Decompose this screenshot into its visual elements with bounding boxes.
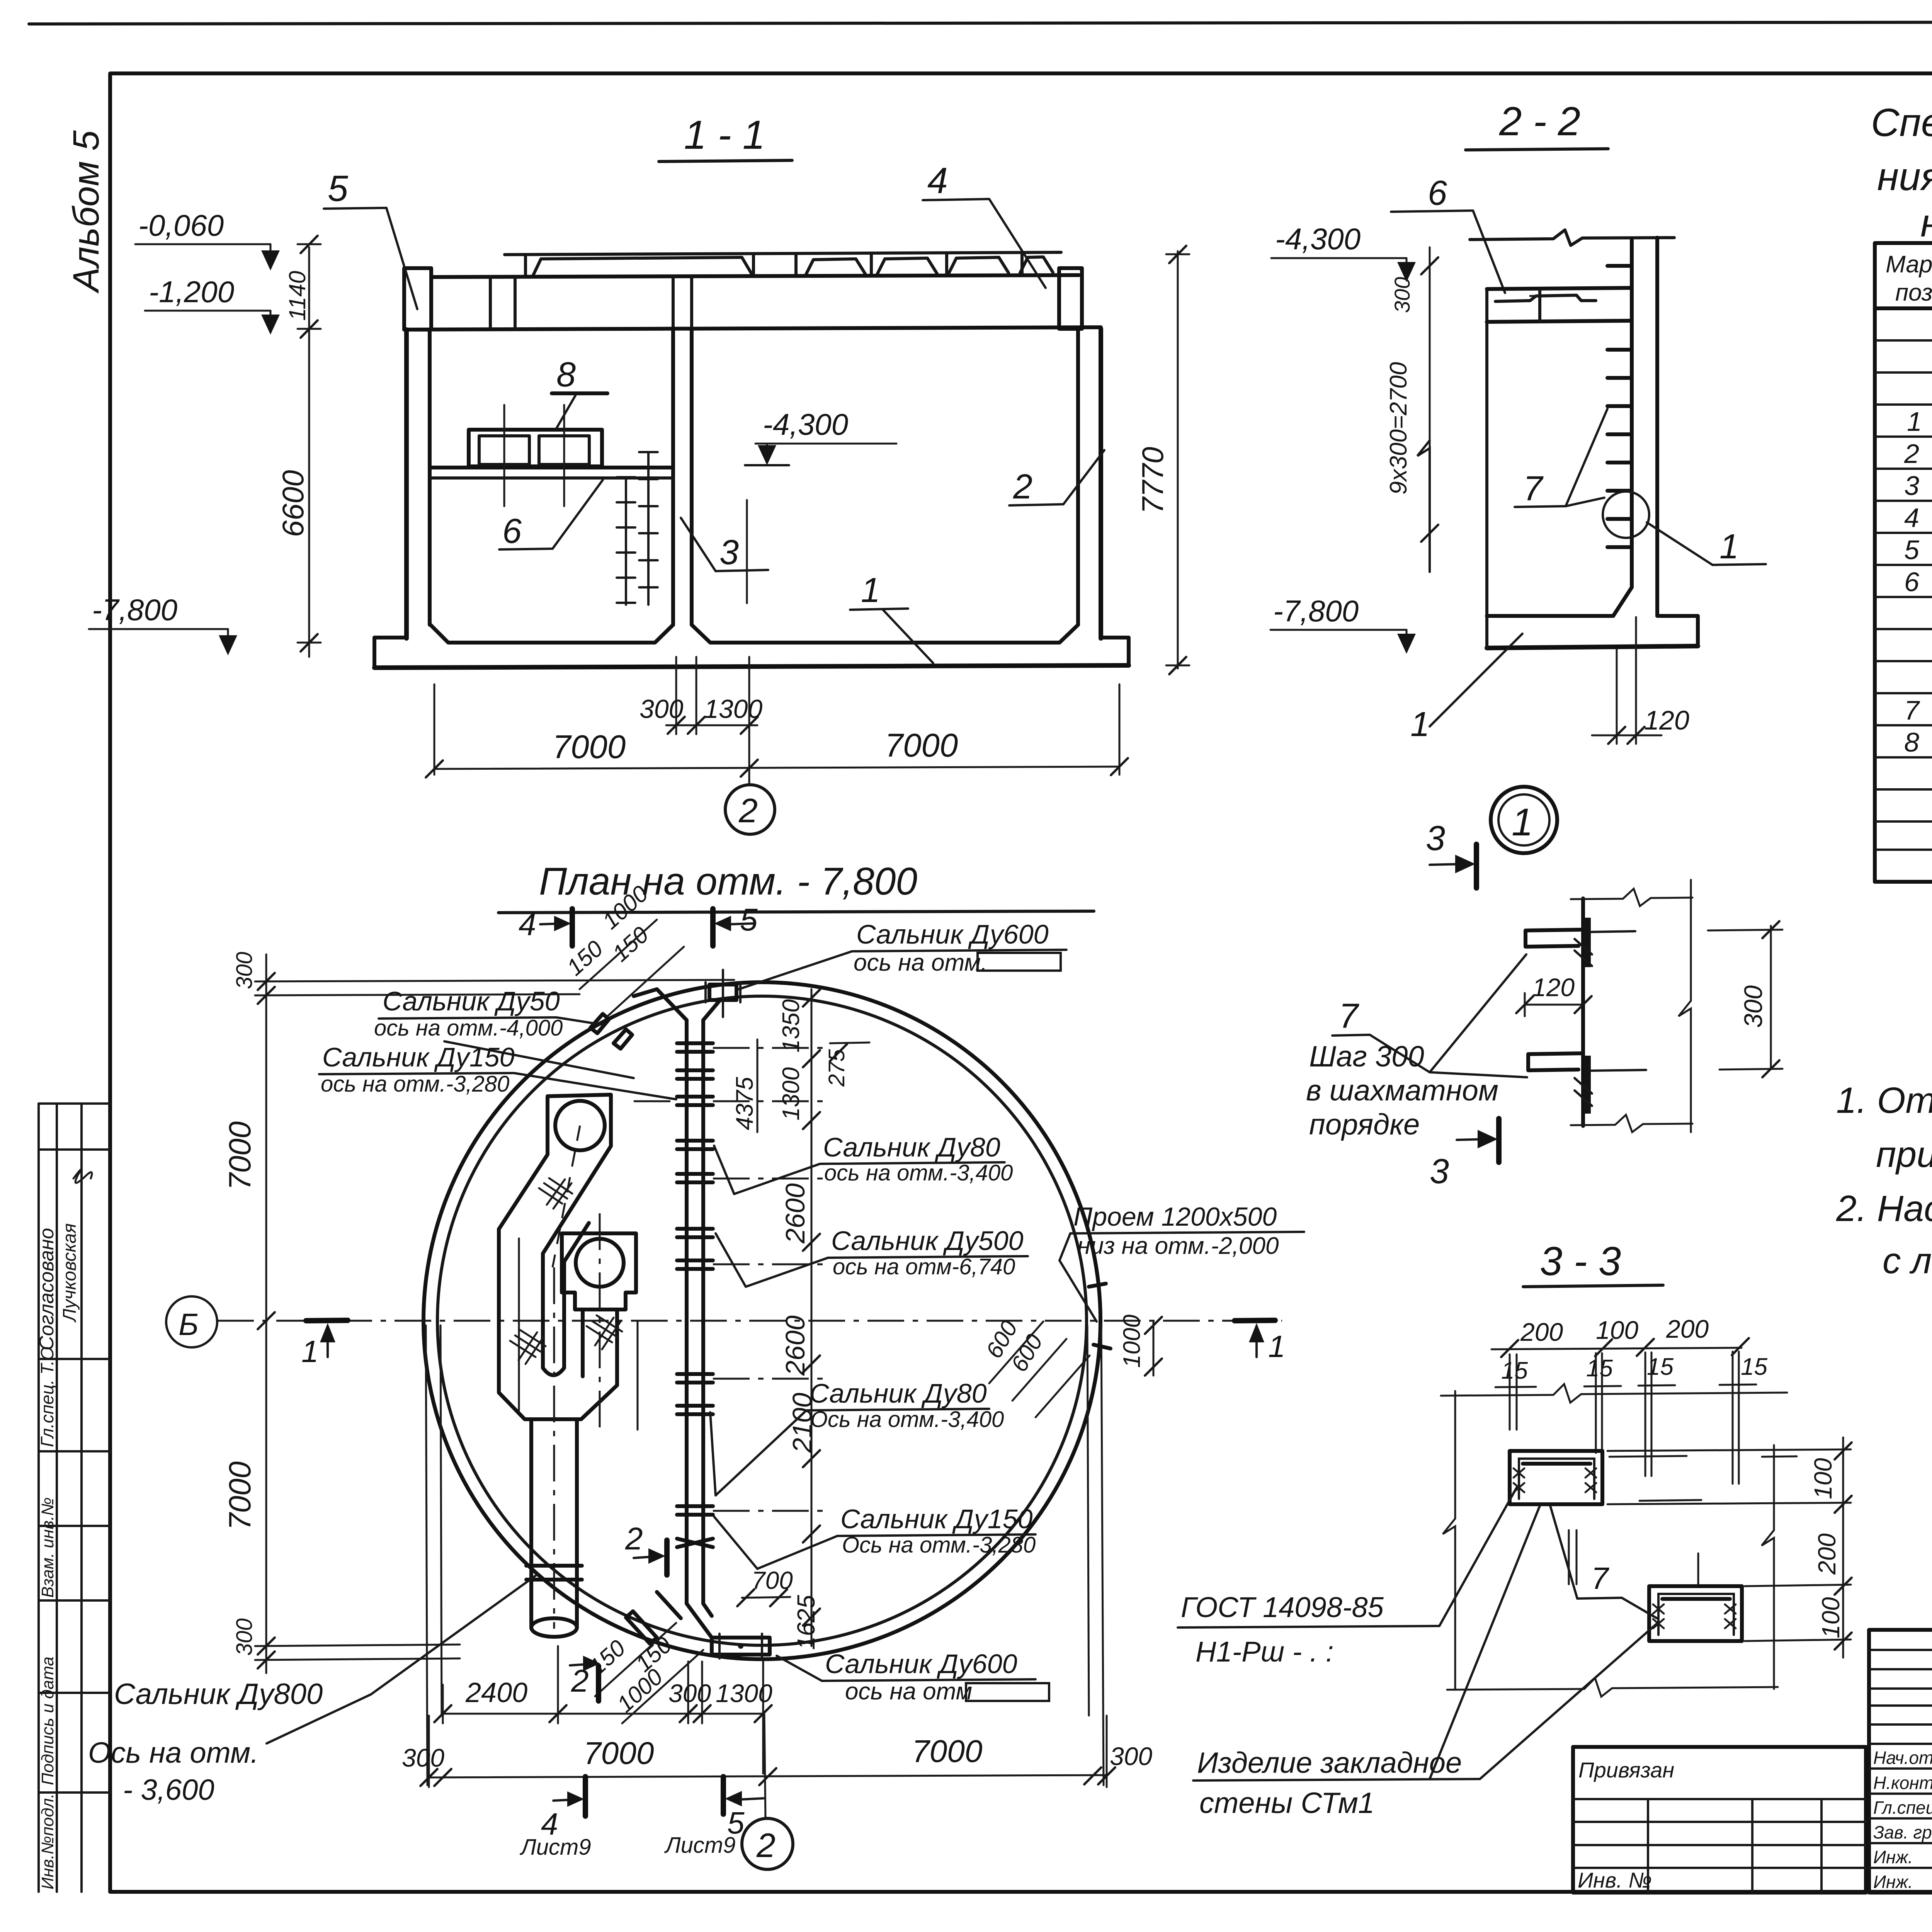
svg-text:ось на отм: ось на отм [845, 1678, 972, 1705]
svg-text:15: 15 [1501, 1357, 1528, 1384]
svg-text:2: 2 [1904, 439, 1919, 469]
glands on wall (bars) [677, 1043, 713, 1547]
pump centerline vertical [553, 1267, 555, 1629]
dividing wall [685, 1020, 689, 1604]
svg-text:100: 100 [1596, 1316, 1638, 1344]
svg-text:Шаг 300: Шаг 300 [1309, 1040, 1424, 1073]
svg-text:3: 3 [719, 533, 739, 572]
svg-text:2600: 2600 [780, 1315, 810, 1376]
wall bottom elbow [687, 1604, 712, 1638]
svg-text:4: 4 [927, 160, 948, 201]
svg-text:7000: 7000 [583, 1736, 654, 1771]
svg-text:7000: 7000 [553, 729, 626, 765]
svg-text:1140: 1140 [284, 271, 310, 321]
right inner wall line with break [1679, 880, 1691, 1132]
tank outer wall circle [423, 982, 1100, 1659]
svg-text:5: 5 [740, 902, 758, 937]
svg-text:Взам. инв.№: Взам. инв.№ [38, 1497, 57, 1598]
roof panel joints [533, 257, 752, 275]
roof slab band [431, 275, 1079, 277]
bottom main dim 7000 7000 [434, 684, 435, 775]
svg-text:ния монолитных конструкций: ния монолитных конструкций подзем- [1877, 155, 1932, 199]
privyazan table [1573, 1747, 1866, 1893]
top anchor bracket [1526, 930, 1578, 947]
svg-text:Сальник Ду500: Сальник Ду500 [831, 1226, 1024, 1256]
svg-text:План на отм. - 7,800: План на отм. - 7,800 [539, 860, 917, 903]
svg-text:Изделие закладное: Изделие закладное [1197, 1747, 1462, 1779]
wall top edge with break [1441, 1384, 1787, 1403]
svg-text:3: 3 [1430, 1152, 1449, 1191]
suction pipe Du800 [529, 1419, 533, 1628]
svg-text:5: 5 [328, 168, 349, 209]
right vertical dim 7770 [1177, 251, 1179, 668]
svg-text:120: 120 [1644, 705, 1689, 735]
svg-text:Проем 1200х500: Проем 1200х500 [1073, 1202, 1277, 1231]
plan left dim chain [265, 954, 267, 1673]
bottom small dims 300 1300 [675, 657, 677, 734]
pump lower circle [576, 1239, 624, 1287]
svg-text:ной части: ной части [1920, 201, 1932, 245]
detail circle 1 (double) [1491, 787, 1557, 853]
svg-text:100: 100 [1809, 1458, 1837, 1499]
svg-text:2: 2 [1013, 468, 1032, 506]
right wall of 2-2 [1630, 239, 1634, 587]
section mark 3 bottom [1457, 1139, 1487, 1140]
top break line [1470, 230, 1674, 245]
svg-text:Марка,: Марка, [1886, 251, 1932, 278]
svg-text:15: 15 [1741, 1354, 1767, 1380]
svg-text:5: 5 [1904, 535, 1920, 565]
svg-text:7: 7 [1523, 469, 1544, 508]
svg-text:7000: 7000 [912, 1734, 982, 1769]
svg-text:7: 7 [1904, 695, 1920, 725]
wall top fork [634, 989, 687, 1020]
svg-text:Спецификация к схеме распол: Спецификация к схеме расположе- [1871, 100, 1932, 145]
svg-text:6: 6 [1904, 567, 1919, 597]
left wall [404, 330, 409, 638]
svg-text:200: 200 [1813, 1533, 1841, 1575]
svg-text:Инж.: Инж. [1873, 1847, 1913, 1867]
svg-text:200: 200 [1666, 1315, 1709, 1343]
dim 300 1300 bottom [687, 1662, 689, 1723]
anchor plate 1 (upper) [1510, 1451, 1602, 1504]
svg-text:1. Отметка сальников Ду600: 1. Отметка сальников Ду600 проставляется [1836, 1080, 1932, 1121]
right dim chain inside plan [811, 989, 813, 1646]
svg-text:Сальник Ду80: Сальник Ду80 [810, 1378, 987, 1408]
pump outline left edge [499, 1229, 617, 1419]
svg-text:порядке: порядке [1309, 1108, 1420, 1141]
guide line [518, 1238, 520, 1410]
svg-text:2400: 2400 [465, 1677, 527, 1708]
middle wall [671, 329, 675, 625]
svg-text:Инж.: Инж. [1873, 1872, 1913, 1892]
svg-text:7: 7 [1591, 1561, 1609, 1595]
svg-text:7000: 7000 [223, 1121, 257, 1190]
svg-text:Б: Б [179, 1307, 199, 1342]
dim 300 detail [1770, 926, 1772, 1068]
svg-text:Ось на отм.-3,400: Ось на отм.-3,400 [810, 1407, 1004, 1432]
svg-text:Сальник Ду600: Сальник Ду600 [856, 919, 1049, 949]
svg-text:2: 2 [756, 1826, 776, 1864]
svg-text:300: 300 [1390, 277, 1414, 313]
svg-text:Инв. №: Инв. № [1578, 1868, 1652, 1892]
diagonal glands top (Du50/Du150) [590, 1014, 609, 1033]
left margin stamp table [39, 1104, 110, 1892]
svg-text:6600: 6600 [276, 470, 310, 537]
svg-text:ось на отм.-3,400: ось на отм.-3,400 [824, 1160, 1013, 1185]
svg-text:Привязан: Привязан [1578, 1758, 1674, 1782]
anchor plate 2 (lower) [1649, 1586, 1742, 1641]
svg-text:7770: 7770 [1136, 447, 1170, 514]
right wall [1076, 329, 1080, 625]
ladder rungs on wall [1607, 266, 1632, 547]
svg-text:4: 4 [519, 907, 536, 942]
svg-text:7000: 7000 [885, 727, 958, 764]
svg-text:1: 1 [1719, 527, 1739, 566]
svg-text:-1,200: -1,200 [149, 275, 234, 309]
svg-text:1: 1 [1512, 801, 1533, 844]
svg-text:3: 3 [1426, 819, 1445, 858]
inner pit edge line [746, 500, 748, 603]
svg-text:1: 1 [861, 571, 880, 610]
plan bottom dim line [428, 1716, 430, 1787]
svg-text:1: 1 [1907, 406, 1922, 437]
svg-text:- 3,600: - 3,600 [123, 1774, 214, 1806]
wall face line [1581, 898, 1585, 1126]
svg-text:Сальник Ду800: Сальник Ду800 [114, 1678, 323, 1711]
svg-text:3: 3 [1904, 471, 1919, 501]
svg-text:300: 300 [1739, 985, 1767, 1028]
2-2 left dim line [1429, 247, 1431, 572]
svg-text:Зав. гр.: Зав. гр. [1873, 1822, 1932, 1842]
svg-text:Ось на отм.: Ось на отм. [88, 1736, 259, 1769]
svg-text:2 - 2: 2 - 2 [1499, 99, 1580, 144]
pump unit 6: upper block [499, 1095, 611, 1375]
svg-text:ось на отм-6,740: ось на отм-6,740 [833, 1254, 1015, 1279]
svg-text:Лист9: Лист9 [664, 1833, 736, 1858]
svg-text:100: 100 [1817, 1597, 1845, 1638]
svg-text:Ось на отм.-3,280: Ось на отм.-3,280 [842, 1532, 1036, 1558]
bottom edge with break [1447, 1678, 1778, 1697]
svg-text:Альбом 5: Альбом 5 [66, 130, 107, 294]
svg-text:2600: 2600 [780, 1183, 810, 1244]
svg-text:Сальник Ду80: Сальник Ду80 [823, 1132, 1000, 1162]
left chamber edge [1485, 290, 1488, 616]
pump upper circle [555, 1101, 605, 1150]
bottom boundary line with break [1571, 1115, 1692, 1132]
svg-text:поз.: поз. [1895, 279, 1932, 306]
top boundary line with break [1571, 889, 1692, 906]
svg-text:ось на отм.: ось на отм. [854, 949, 987, 976]
axis line to circle 2 [748, 657, 750, 784]
svg-text:1300: 1300 [704, 694, 762, 724]
svg-text:1300: 1300 [716, 1679, 772, 1708]
axis circle 2 [725, 785, 775, 834]
left dim line with break [1443, 1391, 1455, 1689]
top gland Du600 [709, 985, 736, 1000]
center guide lines [1569, 1456, 1797, 1584]
svg-text:-0,060: -0,060 [138, 208, 224, 242]
sheet top edge line [29, 22, 1932, 24]
detail circle mark [1603, 492, 1649, 538]
svg-text:1000: 1000 [1119, 1315, 1145, 1368]
axis line to plan circle 2 [764, 1714, 765, 1818]
slab at -4,300 [1487, 288, 1632, 289]
svg-text:2. Настоящий чертеж рассматр: 2. Настоящий чертеж рассматривать совмес… [1836, 1188, 1932, 1229]
tank inner wall circle [437, 996, 1087, 1645]
gland axis dash-dot stubs [634, 1048, 823, 1511]
right dim line with break [1762, 1445, 1774, 1689]
svg-text:300: 300 [668, 1679, 711, 1708]
svg-text:Сальник Ду600: Сальник Ду600 [825, 1649, 1017, 1679]
pump neck left line [581, 1310, 585, 1376]
axis B horizontal [217, 1320, 1282, 1322]
svg-text:Инв.№подл.: Инв.№подл. [38, 1793, 57, 1889]
svg-text:ось на отм.-4,000: ось на отм.-4,000 [374, 1015, 563, 1041]
svg-text:15: 15 [1586, 1355, 1613, 1382]
svg-text:6: 6 [1428, 174, 1447, 213]
svg-text:Лист9: Лист9 [519, 1835, 591, 1860]
left vertical dim line [308, 247, 310, 657]
opening in wall right (proem) [1089, 1284, 1106, 1287]
svg-text:Гл.спец.: Гл.спец. [1873, 1798, 1932, 1818]
name rows [1869, 1769, 1932, 1868]
svg-text:4: 4 [1904, 503, 1919, 533]
roof band joints [489, 277, 492, 329]
diagonal glands bottom [626, 1611, 657, 1644]
svg-text:3 - 3: 3 - 3 [1540, 1239, 1621, 1284]
svg-text:-7,800: -7,800 [1273, 594, 1359, 628]
svg-text:Сальник Ду150: Сальник Ду150 [840, 1504, 1033, 1534]
intermediate slab in left chamber [430, 466, 673, 469]
svg-text:300: 300 [402, 1743, 444, 1772]
svg-text:300: 300 [232, 952, 257, 989]
svg-text:Нач.отд: Нач.отд [1873, 1748, 1932, 1768]
svg-text:8: 8 [1904, 727, 1919, 757]
svg-text:1300: 1300 [778, 1067, 804, 1121]
roof panel top line [505, 252, 1061, 255]
section arrow 1 left [306, 1320, 348, 1321]
bottom slab [430, 624, 673, 643]
svg-text:9x300=2700: 9x300=2700 [1385, 362, 1412, 495]
svg-text:Сальник Ду50: Сальник Ду50 [383, 986, 560, 1016]
svg-text:7000: 7000 [223, 1461, 257, 1530]
plan circle 2 [742, 1818, 793, 1869]
pipe gland at circle wall [526, 1564, 582, 1568]
dim 4375 / 275 [757, 1039, 759, 1132]
svg-text:6: 6 [502, 512, 522, 551]
dim 120 of 2-2 [1616, 649, 1618, 744]
svg-text:Н.контр.: Н.контр. [1873, 1773, 1932, 1793]
left margin signature [73, 1170, 92, 1183]
svg-text:1625: 1625 [792, 1595, 820, 1650]
svg-text:300: 300 [1110, 1742, 1152, 1770]
svg-text:1: 1 [1410, 705, 1430, 744]
pump lower block [562, 1233, 636, 1310]
svg-text:Н1-Рш - . :: Н1-Рш - . : [1196, 1636, 1333, 1668]
svg-text:низ на отм.-2,000: низ на отм.-2,000 [1077, 1233, 1279, 1259]
svg-text:в шахматном: в шахматном [1306, 1074, 1498, 1107]
svg-text:Согласовано: Согласовано [36, 1228, 58, 1350]
section arrow 1 right [1235, 1320, 1275, 1321]
svg-text:ГОСТ 14098-85: ГОСТ 14098-85 [1181, 1591, 1384, 1623]
svg-text:1350: 1350 [778, 999, 804, 1053]
bottom gland Du600 [712, 1638, 770, 1655]
svg-text:-7,800: -7,800 [92, 593, 177, 627]
svg-text:2: 2 [625, 1521, 643, 1556]
svg-text:стены СТм1: стены СТм1 [1199, 1787, 1374, 1820]
right parapet block [1059, 268, 1082, 329]
svg-text:Лучковская: Лучковская [60, 1223, 80, 1323]
svg-text:4375: 4375 [731, 1077, 758, 1130]
svg-text:2: 2 [738, 791, 758, 830]
rebar pairs [1510, 1352, 1739, 1484]
svg-text:200: 200 [1520, 1318, 1563, 1346]
axis B circle [166, 1296, 217, 1347]
title block outer [1869, 1630, 1932, 1893]
section marks 4/5 bottom + Лист9 [583, 1777, 588, 1816]
svg-text:Подпись и дата: Подпись и дата [38, 1656, 57, 1785]
left parapet block [404, 268, 431, 330]
svg-text:300: 300 [639, 694, 684, 724]
svg-text:-4,300: -4,300 [763, 407, 848, 441]
pump centerline diagonal [553, 1126, 580, 1267]
bottom anchor bracket [1528, 1054, 1578, 1070]
svg-text:1: 1 [1268, 1329, 1286, 1364]
svg-text:-4,300: -4,300 [1275, 222, 1361, 256]
svg-text:1: 1 [301, 1334, 319, 1369]
upper small rows left part [1869, 1630, 1932, 1893]
svg-text:300: 300 [232, 1618, 257, 1656]
svg-text:1 - 1: 1 - 1 [684, 112, 765, 158]
svg-text:с листом 8.: с листом 8. [1883, 1240, 1932, 1281]
bottom slab of 2-2 [1487, 587, 1632, 616]
svg-text:120: 120 [1532, 973, 1575, 1002]
trays (lotki) box pos.8 [469, 430, 602, 466]
ladder rails [617, 452, 658, 605]
svg-text:Гл.спец. Т.О: Гл.спец. Т.О [37, 1347, 57, 1447]
svg-text:при привязке проекта.: при привязке проекта. [1876, 1134, 1932, 1175]
svg-text:Сальник Ду150: Сальник Ду150 [322, 1042, 515, 1072]
svg-text:8: 8 [556, 355, 576, 394]
spec table grid [1875, 243, 1932, 882]
svg-text:7: 7 [1339, 997, 1359, 1036]
svg-text:ось на отм.-3,280: ось на отм.-3,280 [321, 1071, 509, 1097]
dim 2400 [442, 1685, 444, 1723]
circle tangent extension lines [426, 1325, 427, 1785]
weld hatch marks [510, 1178, 622, 1364]
